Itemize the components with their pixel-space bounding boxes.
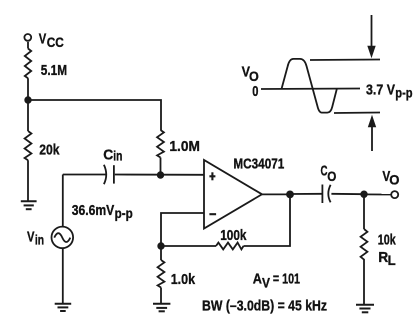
waveform sine xyxy=(282,59,337,113)
wire xyxy=(62,249,64,304)
node junction xyxy=(157,242,164,249)
wire xyxy=(331,193,364,195)
ground xyxy=(55,304,71,311)
svg-text:V: V xyxy=(262,274,271,290)
svg-text:100k: 100k xyxy=(220,227,247,244)
node junction xyxy=(286,191,294,199)
wire xyxy=(161,245,216,247)
svg-text:L: L xyxy=(388,252,397,268)
svg-text:p-p: p-p xyxy=(395,85,412,101)
svg-text:0: 0 xyxy=(252,83,258,100)
resistor RL 10k xyxy=(361,229,368,261)
resistor 20k xyxy=(25,131,32,160)
wire xyxy=(363,261,365,305)
svg-text:10k: 10k xyxy=(378,232,396,249)
svg-text:A: A xyxy=(253,271,262,288)
source Vin xyxy=(52,227,74,249)
resistor 1.0M xyxy=(157,130,164,158)
wire xyxy=(27,100,29,131)
waveform axis xyxy=(261,88,360,91)
svg-text:MC34071: MC34071 xyxy=(233,155,284,172)
wire xyxy=(27,42,29,49)
svg-text:= 101: = 101 xyxy=(273,271,300,288)
wire xyxy=(160,288,162,304)
wire xyxy=(28,100,161,130)
svg-text:1.0M: 1.0M xyxy=(169,138,200,155)
capacitor Cin xyxy=(104,165,106,184)
svg-text:O: O xyxy=(249,68,259,84)
wire xyxy=(27,160,29,201)
wire xyxy=(63,174,107,176)
ground xyxy=(356,305,374,313)
wire xyxy=(62,175,64,227)
ground xyxy=(153,304,170,312)
wire xyxy=(27,78,29,100)
svg-text:p-p: p-p xyxy=(115,205,133,221)
op-amp U1 MC34071 xyxy=(204,160,262,229)
svg-text:20k: 20k xyxy=(39,141,60,158)
node junction xyxy=(24,96,31,103)
svg-text:C: C xyxy=(103,146,113,163)
svg-text:5.1M: 5.1M xyxy=(41,62,67,79)
svg-text:O: O xyxy=(389,172,399,188)
op-amp minus input sign xyxy=(209,213,216,215)
svg-text:in: in xyxy=(35,231,44,247)
ground xyxy=(21,201,37,209)
resistor 100k xyxy=(216,243,244,250)
svg-text:in: in xyxy=(113,148,122,164)
wire xyxy=(364,193,391,195)
wire xyxy=(262,193,290,195)
down arrow xyxy=(371,15,373,48)
wire xyxy=(160,158,162,176)
wire xyxy=(115,174,204,176)
svg-text:BW (–3.0dB) = 45 kHz: BW (–3.0dB) = 45 kHz xyxy=(202,297,327,314)
lower peak measurement line xyxy=(334,112,380,115)
svg-text:1.0k: 1.0k xyxy=(171,271,196,288)
svg-text:36.6mV: 36.6mV xyxy=(72,202,115,219)
wire xyxy=(244,194,291,246)
svg-text:3.7 V: 3.7 V xyxy=(366,81,395,98)
op-amp plus input sign xyxy=(209,172,215,180)
svg-text:CC: CC xyxy=(47,34,64,50)
VCC terminal xyxy=(24,34,31,41)
VO output terminal xyxy=(391,191,398,198)
node junction xyxy=(157,171,164,178)
svg-text:V: V xyxy=(39,31,47,48)
capacitor CO xyxy=(321,185,323,204)
up arrow xyxy=(371,125,373,151)
wire xyxy=(290,193,322,195)
resistor 1.0k xyxy=(158,260,165,288)
wire xyxy=(363,194,365,229)
svg-text:V: V xyxy=(27,228,35,245)
resistor R 5.1M xyxy=(25,49,31,79)
wire xyxy=(161,213,204,246)
upper peak measurement line xyxy=(310,59,380,62)
node junction xyxy=(360,191,367,198)
svg-text:O: O xyxy=(327,168,336,184)
wire xyxy=(160,246,162,260)
